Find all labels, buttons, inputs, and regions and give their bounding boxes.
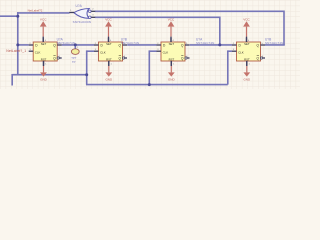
svg-text:TP: TP: [72, 60, 76, 64]
wire: U5A CLK feed horizontal: [228, 50, 232, 52]
svg-text:SET: SET: [41, 42, 47, 46]
U5A pin 4 PRE (top): [246, 38, 248, 42]
junction D branch: [16, 43, 19, 46]
flip-flop U4A (SN74HC74N, box): [161, 42, 185, 61]
wire: U4A Q to U5A D: [190, 44, 232, 46]
svg-text:RST: RST: [244, 58, 250, 62]
power port GND below U5A: [246, 66, 248, 72]
junction bottom A/B: [85, 73, 88, 76]
pin stub from U4A RST: [170, 61, 172, 66]
U5A pin 2 D (left top): [232, 44, 237, 46]
svg-text:RST: RST: [169, 58, 175, 62]
U3A pin 5 Q (right top): [123, 44, 128, 46]
U1A output pin 1 stub: [69, 12, 74, 14]
pin stub from U5A RST: [246, 61, 248, 66]
flip-flop U2A (SN74HC74N, box): [33, 42, 57, 61]
svg-text:SN74HC74N: SN74HC74N: [121, 41, 139, 45]
U2A pin 6 Qbar (right bottom, bubble): [57, 57, 59, 59]
U1A input bubble pin 2: [89, 10, 92, 13]
U3A pin 1 CLR (bottom): [108, 61, 110, 66]
svg-text:SN74HC74N: SN74HC74N: [196, 41, 214, 45]
wire: U4A CLK feed horizontal: [149, 50, 156, 52]
U2A pin 1 CLR (bottom): [43, 61, 45, 66]
wire: right vertical from top run to U5A Q: [283, 11, 285, 45]
junction Q3 tap: [218, 43, 221, 46]
svg-text:VCC: VCC: [105, 17, 112, 21]
op gate U1A (NAND, DeMorgan negative-input OR, mirrored): [69, 8, 95, 18]
svg-text:U?A: U?A: [76, 4, 83, 8]
pin stub to U2A SET: [42, 37, 44, 42]
svg-text:GND: GND: [243, 77, 251, 81]
svg-text:SN74HC00N: SN74HC00N: [73, 20, 91, 24]
pin stub to U3A SET: [108, 37, 110, 42]
wire: gate input 2 run: [95, 16, 220, 18]
svg-text:SET: SET: [106, 42, 112, 46]
wire: U4A CLK vertical down: [148, 50, 150, 84]
U2A pin 4 PRE (top): [42, 38, 44, 42]
wire: bottom-left tail: [11, 74, 13, 86]
svg-text:GND: GND: [105, 77, 113, 81]
power port GND below U2A: [43, 66, 45, 72]
svg-text:TP?: TP?: [71, 56, 76, 60]
U4A pin 5 Q (right top): [185, 44, 190, 46]
svg-text:NetLabel?2: NetLabel?2: [28, 8, 43, 12]
svg-text:VCC: VCC: [168, 17, 175, 21]
wire: vertical from input2 run to Q net of U4A: [219, 17, 221, 45]
wire: U5A Q to right vertical: [265, 44, 285, 46]
svg-text:SET: SET: [169, 42, 175, 46]
U5A pin 5 Q (right top): [261, 44, 266, 46]
U4A pin 2 D (left top): [157, 44, 162, 46]
U5A pin 6 Qbar (right bottom, bubble): [260, 57, 262, 59]
wire: U3A Q to U4A D: [127, 44, 156, 46]
wire: net RESET entry from left edge: [0, 15, 18, 17]
svg-text:CLK: CLK: [100, 50, 106, 54]
U4A pin 3 CLK (left bottom): [157, 50, 162, 52]
wire: test point stub: [74, 45, 76, 49]
test point TP1 pad: [71, 49, 79, 55]
svg-text:CLK: CLK: [35, 50, 41, 54]
U4A pin 6 Qbar (right bottom, bubble): [185, 57, 187, 59]
U2A pin 5 Q (right top): [57, 44, 62, 46]
U3A pin 3 CLK (left bottom): [94, 50, 99, 52]
wire: gate input 1 top run: [95, 10, 284, 12]
pin stub to U5A SET: [246, 37, 248, 42]
wire: vertical bus on left (gate output down to bottom): [17, 12, 19, 75]
wire: U2A Q to U3A D: [62, 44, 94, 46]
svg-text:NetLabel?_1: NetLabel?_1: [6, 49, 26, 53]
U2A pin 3 CLK (left bottom): [29, 50, 34, 52]
svg-text:SET: SET: [244, 42, 250, 46]
wire: branch to U2A pin D: [18, 44, 29, 46]
U2A pin 2 D (left top): [29, 44, 34, 46]
wire: bottom run A: [12, 74, 87, 76]
U1A input bubble pin 3: [89, 16, 92, 19]
junction left entry: [16, 15, 19, 18]
U3A pin 4 PRE (top): [108, 38, 110, 42]
flip-flop U3A (SN74HC74N, box): [99, 42, 123, 61]
junction test point: [74, 43, 77, 46]
wire: gate output run to U1A: [17, 12, 70, 14]
svg-text:RST: RST: [106, 58, 112, 62]
svg-text:RST: RST: [41, 58, 47, 62]
power port GND below U3A: [108, 66, 110, 72]
flip-flop U5A (SN74HC74N, box): [237, 42, 261, 61]
U3A pin 2 D (left top): [94, 44, 99, 46]
svg-text:GND: GND: [40, 77, 48, 81]
U3A pin 6 Qbar (right bottom, bubble): [122, 57, 124, 59]
pin stub from U3A RST: [108, 61, 110, 66]
junction CLK3: [148, 83, 151, 86]
wire: U5A CLK vertical down: [227, 50, 229, 84]
svg-text:CLK: CLK: [163, 50, 169, 54]
wire: U3A CLK feed horizontal: [87, 50, 94, 52]
svg-text:SN74HC74N: SN74HC74N: [57, 41, 75, 45]
wire: bottom run B: [86, 84, 228, 86]
U4A pin 4 PRE (top): [170, 38, 172, 42]
svg-text:GND: GND: [168, 77, 176, 81]
power port GND below U4A: [170, 66, 172, 72]
pin stub to U4A SET: [170, 37, 172, 42]
svg-text:VCC: VCC: [243, 17, 250, 21]
U5A pin 3 CLK (left bottom): [232, 50, 237, 52]
pin stub from U2A RST: [43, 61, 45, 66]
svg-text:VCC: VCC: [40, 17, 47, 21]
svg-text:CLK: CLK: [238, 50, 244, 54]
svg-text:SN74HC74N: SN74HC74N: [265, 41, 283, 45]
wire: U3A CLK vertical down: [86, 50, 88, 84]
U4A pin 1 CLR (bottom): [170, 61, 172, 66]
U5A pin 1 CLR (bottom): [246, 61, 248, 66]
